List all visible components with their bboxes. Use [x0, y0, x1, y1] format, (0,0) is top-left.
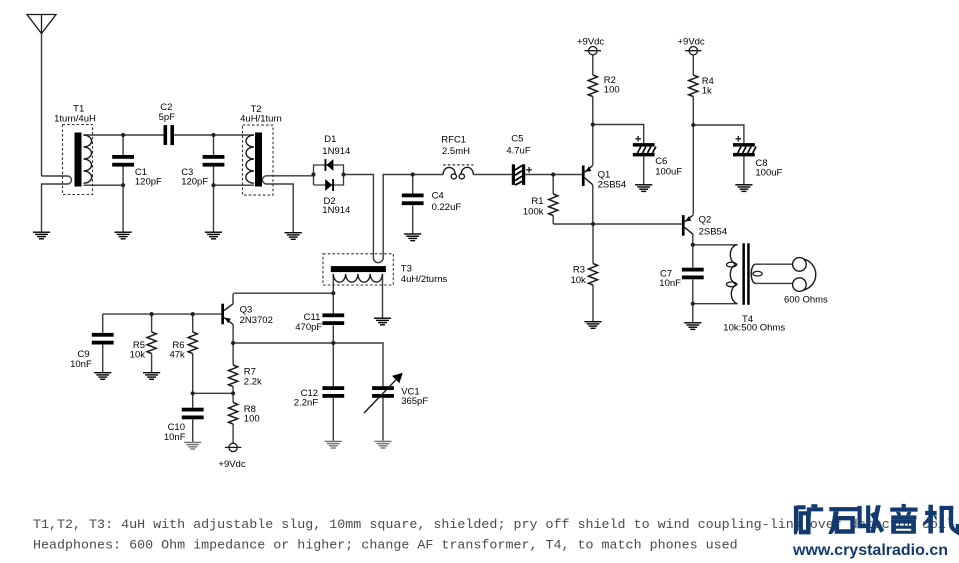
wire R1 bottom to bias rail — [552, 216, 554, 225]
wire C11 bottom to osc rail — [332, 325, 334, 343]
wire C7 bottom stub — [692, 279, 694, 303]
svg-text:C6: C6 — [655, 156, 667, 167]
svg-text:2.2k: 2.2k — [244, 376, 262, 387]
svg-text:600 Ohms: 600 Ohms — [784, 295, 828, 306]
svg-text:10nF: 10nF — [164, 432, 186, 443]
diode D1 — [325, 159, 334, 171]
svg-text:10k: 10k — [130, 349, 146, 360]
wire C4 node to RFC1 — [413, 174, 443, 176]
wire C6 to ground — [643, 156, 645, 184]
resistor R1 — [549, 194, 558, 216]
ground T2 link — [285, 232, 302, 240]
junction node R1 top — [551, 172, 555, 176]
wire R2 to node — [592, 97, 594, 125]
junction node C11 bottom — [331, 341, 335, 345]
svg-text:10k:500 Ohms: 10k:500 Ohms — [723, 323, 785, 334]
wire C7 node to ground — [692, 304, 694, 322]
headphones 600 Ohms — [793, 258, 816, 292]
junction node C1 bottom — [121, 183, 125, 187]
svg-text:1N914: 1N914 — [322, 146, 350, 157]
+9Vdc terminal no.3 — [225, 443, 241, 451]
wire Q3 emitter down through R7 — [232, 325, 234, 366]
resistor R4 — [689, 75, 698, 97]
resistor R5 — [147, 332, 156, 354]
junction node Q1 collector — [591, 222, 595, 226]
wire R2 node to C6 — [593, 125, 644, 144]
wire T2 secondary loop turnback — [262, 176, 293, 232]
capacitor C1 — [112, 155, 134, 167]
wire T2 primary bottom to C3 — [214, 184, 255, 186]
capacitor C7 — [682, 268, 704, 280]
ground R3 — [584, 321, 601, 329]
wire R8 top stub — [232, 393, 234, 402]
capacitor C3 — [203, 155, 225, 167]
transformer T1 — [63, 125, 93, 195]
+9Vdc terminal no.1 — [585, 47, 601, 55]
svg-text:Headphones: 600 Ohm impedance: Headphones: 600 Ohm impedance or higher;… — [33, 539, 738, 554]
svg-text:4uH/1turn: 4uH/1turn — [240, 113, 282, 124]
wire R3 top stub — [592, 224, 594, 264]
wire C8 to ground — [743, 156, 745, 184]
svg-text:2SB54: 2SB54 — [598, 180, 627, 191]
svg-text:Q2: Q2 — [699, 214, 712, 225]
wire R6 top stub — [192, 314, 194, 332]
wire Q1 emitter up to R2 node — [592, 125, 594, 166]
wire R4 node down to Q2 emitter — [692, 125, 694, 215]
junction node C1 top — [121, 133, 125, 137]
transistor Q3 — [221, 304, 233, 325]
wire T4 secondary bottom to phones — [756, 282, 793, 284]
svg-text:10nF: 10nF — [70, 359, 92, 370]
wire T4 secondary top to phones — [756, 263, 793, 265]
wire T1 primary single-turn loop — [42, 176, 72, 232]
wire C3 down to ground — [213, 167, 215, 232]
wire C12 top stub — [332, 343, 334, 386]
ground C9 — [94, 372, 111, 380]
junction node R7 bottom — [231, 391, 235, 395]
capacitor C11 — [322, 313, 344, 325]
wire R5 to ground — [151, 354, 153, 373]
wire +9V no.1 to R2 — [592, 55, 594, 75]
svg-text:0.22uF: 0.22uF — [432, 202, 462, 213]
wire C10 to ground — [192, 419, 194, 441]
wire R6 down to C10 node — [192, 354, 194, 394]
svg-text:4.7uF: 4.7uF — [506, 146, 530, 157]
wire Q2 collector to C7 node — [692, 235, 694, 245]
svg-text:47k: 47k — [169, 349, 185, 360]
svg-text:100: 100 — [604, 84, 620, 95]
wire C10 top stub — [192, 393, 194, 407]
svg-text:C5: C5 — [511, 134, 523, 145]
wire R4 to node — [692, 97, 694, 126]
wire C4 bottom to ground — [412, 205, 414, 233]
svg-text:100uF: 100uF — [755, 168, 782, 179]
svg-text:1k: 1k — [702, 86, 712, 97]
capacitor C6 electrolytic — [633, 136, 656, 156]
ground C3 — [205, 232, 222, 240]
svg-text:1turn/4uH: 1turn/4uH — [54, 113, 96, 124]
variable capacitor VC1 — [364, 373, 403, 413]
transistor Q1 — [582, 165, 593, 186]
svg-text:+9Vdc: +9Vdc — [577, 36, 604, 47]
svg-text:1N914: 1N914 — [322, 205, 350, 216]
inductor RFC1 slug dashed line — [443, 164, 473, 166]
wire R7 to node — [232, 387, 234, 394]
capacitor C5 electrolytic — [512, 164, 532, 185]
ground antenna — [33, 232, 50, 240]
wire T3 secondary left lead down — [332, 274, 334, 293]
svg-text:120pF: 120pF — [135, 176, 162, 187]
wire Q3 base rail — [103, 313, 222, 315]
resistor R7 — [229, 365, 238, 387]
junction node Q3 emitter rail — [231, 341, 235, 345]
wire C7 node to T4 primary top — [693, 244, 738, 246]
capacitor C10 — [182, 408, 204, 420]
ground C8 — [735, 184, 752, 192]
svg-text:4uH/2turns: 4uH/2turns — [401, 274, 448, 285]
svg-text:R1: R1 — [531, 196, 543, 207]
junction node diode left — [311, 172, 315, 176]
wire T1 secondary top to tank rail — [84, 134, 164, 136]
inductor RFC1 — [443, 167, 473, 179]
svg-text:10k: 10k — [570, 275, 586, 286]
svg-text:+9Vdc: +9Vdc — [677, 36, 704, 47]
wire diode node to T3 link down-loop and back — [344, 175, 413, 263]
wire bias rail to Q2 base — [553, 223, 682, 225]
junction node R2 bottom — [591, 122, 595, 126]
svg-text:470pF: 470pF — [295, 322, 322, 333]
watermark char shou (receive) — [858, 505, 885, 533]
diode pair frame — [314, 165, 344, 185]
ground VC1 — [374, 441, 391, 449]
ground C4 — [404, 233, 421, 241]
wire Q1 collector down to rail — [592, 185, 594, 224]
wire C9 top stub — [102, 314, 104, 333]
wire C1 down to ground — [122, 167, 124, 232]
wire C1 top stub — [122, 135, 124, 155]
wire C7 top stub — [692, 245, 694, 268]
svg-text:365pF: 365pF — [401, 396, 428, 407]
wire R5 top stub — [151, 314, 153, 332]
wire R8 to +9V terminal — [232, 424, 234, 443]
transformer T2 — [243, 125, 274, 195]
diode D2 — [325, 179, 334, 191]
junction node R4 bottom — [691, 123, 695, 127]
ground C10 — [184, 442, 201, 450]
watermark char yin (sound) — [890, 504, 917, 534]
wire antenna lead-in down — [41, 34, 43, 177]
capacitor C8 electrolytic — [733, 136, 756, 156]
wire RFC1 to C5 — [473, 174, 512, 176]
ground R5 — [143, 372, 160, 380]
resistor R6 — [188, 332, 197, 354]
wire C2 right to T2 — [174, 134, 254, 136]
watermark char shi (stone) — [828, 507, 858, 534]
transformer T3 — [323, 254, 393, 285]
svg-text:T1,T2, T3: 4uH with adjustable: T1,T2, T3: 4uH with adjustable slug, 10m… — [33, 518, 954, 533]
junction node C7 top — [691, 243, 695, 247]
wire T3 secondary right lead to ground — [382, 274, 384, 318]
+9Vdc terminal no.2 — [685, 47, 701, 55]
resistor R8 — [229, 403, 238, 425]
junction node C7 bottom — [691, 302, 695, 306]
resistor R2 — [588, 75, 597, 97]
wire R3 bottom to ground — [592, 285, 594, 321]
svg-text:5pF: 5pF — [159, 112, 176, 123]
transistor Q2 — [682, 215, 693, 236]
junction node C3 top — [211, 133, 215, 137]
ground C12 — [325, 441, 342, 449]
wire VC1 to ground — [382, 398, 384, 441]
svg-text:120pF: 120pF — [181, 176, 208, 187]
junction node diode right — [341, 172, 345, 176]
wire C5 to Q1 base — [525, 174, 582, 176]
wire C12 to ground — [332, 398, 334, 441]
junction node C4 top — [411, 172, 415, 176]
svg-text:R3: R3 — [573, 264, 585, 275]
svg-text:C4: C4 — [432, 190, 444, 201]
wire R4 node to C8 — [693, 125, 744, 143]
wire osc rail Q3 emitter to VC1 — [233, 343, 383, 386]
wire T4 primary bottom to C7 node — [693, 303, 738, 305]
wire R1 top stub — [552, 175, 554, 195]
wire C9 to ground — [102, 345, 104, 372]
svg-text:RFC1: RFC1 — [441, 134, 466, 145]
wire C4 down to plates — [412, 175, 414, 194]
junction node C3 bottom — [211, 183, 215, 187]
antenna — [27, 15, 56, 34]
ground T3 — [374, 318, 391, 326]
svg-text:www.crystalradio.cn: www.crystalradio.cn — [792, 542, 948, 559]
junction node R5 top — [150, 312, 154, 316]
junction node T3 out — [331, 291, 335, 295]
capacitor C9 — [92, 333, 114, 345]
svg-text:T3: T3 — [401, 263, 412, 274]
watermark char kuang (mine) — [794, 504, 823, 534]
svg-text:100k: 100k — [523, 207, 544, 218]
resistor R3 — [588, 264, 597, 286]
svg-text:2SB54: 2SB54 — [699, 227, 728, 238]
ground C7 — [684, 322, 701, 330]
watermark char ji (machine) — [924, 505, 959, 536]
capacitor C4 — [402, 194, 424, 206]
junction node C10 top — [191, 391, 195, 395]
svg-text:2.5mH: 2.5mH — [442, 146, 470, 157]
svg-text:100uF: 100uF — [655, 167, 682, 178]
wire T2 secondary top to diode node — [267, 175, 314, 177]
wire C10 node rail to R7 node — [193, 392, 233, 394]
junction node R6 top — [191, 312, 195, 316]
capacitor C2 — [164, 125, 175, 145]
ground C1 — [115, 232, 132, 240]
svg-text:10nF: 10nF — [659, 278, 681, 289]
ground C6 — [635, 184, 652, 192]
svg-text:D1: D1 — [324, 134, 336, 145]
wire C11 top stub — [332, 293, 334, 313]
wire T3 node to Q3 collector — [233, 293, 333, 304]
wire +9V no.2 to R4 — [692, 55, 694, 75]
svg-text:2N3702: 2N3702 — [240, 315, 273, 326]
svg-text:100: 100 — [244, 414, 260, 425]
capacitor C12 — [322, 386, 344, 398]
wire T1 secondary bottom to C1 — [84, 184, 124, 186]
svg-text:+9Vdc: +9Vdc — [218, 459, 245, 470]
transformer T4 — [727, 243, 763, 304]
wire C3 top stub — [213, 135, 215, 155]
svg-text:2.2nF: 2.2nF — [294, 397, 318, 408]
